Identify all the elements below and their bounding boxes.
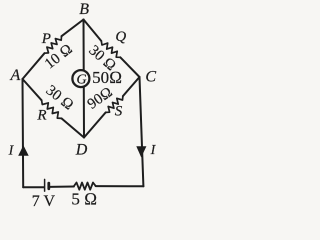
resistor 5 ohm (zigzag, bottom wire) (74, 183, 96, 190)
resistor P 10 ohm (zigzag, arm A-B) (45, 36, 62, 53)
svg-text:S: S (115, 104, 123, 120)
current arrow I downward on right wire (136, 146, 146, 157)
wire resistor P to B (62, 20, 84, 37)
galvanometer G circle symbol (72, 70, 89, 87)
svg-text:Q: Q (115, 29, 126, 45)
svg-text:P: P (41, 31, 51, 47)
wire left side A down to battery corner (22, 79, 25, 187)
wire right side C down to bottom corner (140, 77, 144, 186)
battery V1 7V short plate (47, 183, 50, 189)
resistor R 30 ohm (zigzag, arm A-D) (42, 100, 62, 118)
wire bridge diagonal B-D through galvanometer (83, 20, 86, 138)
svg-text:90Ω: 90Ω (85, 84, 116, 112)
wire A to resistor P (23, 53, 45, 79)
resistor S 90 ohm (zigzag, arm D-C) (106, 96, 123, 112)
wire A to resistor R (23, 79, 42, 100)
wire bottom left corner to battery (23, 186, 44, 188)
wire D to resistor S (84, 112, 106, 137)
svg-text:5 Ω: 5 Ω (71, 190, 97, 209)
svg-text:7 V: 7 V (32, 193, 56, 210)
svg-text:I: I (8, 144, 15, 159)
battery V1 7V long plate (44, 179, 46, 191)
svg-text:A: A (10, 67, 21, 84)
svg-text:B: B (79, 1, 89, 18)
svg-text:50Ω: 50Ω (92, 68, 122, 87)
svg-text:G: G (77, 73, 87, 88)
svg-text:C: C (145, 69, 156, 86)
wire battery to 5 ohm resistor (50, 186, 74, 188)
wire resistor R to D (62, 118, 85, 137)
current arrow I upward on left wire (18, 145, 29, 155)
wire resistor Q to C (120, 57, 139, 77)
wire B to resistor Q (84, 20, 102, 42)
resistor Q 30 ohm (zigzag, arm B-C) (101, 41, 120, 57)
svg-text:R: R (36, 108, 46, 124)
wire resistor S to C (123, 77, 140, 96)
wire 5 ohm resistor to bottom right corner (96, 185, 144, 187)
svg-text:I: I (150, 143, 157, 158)
svg-text:D: D (75, 142, 88, 159)
